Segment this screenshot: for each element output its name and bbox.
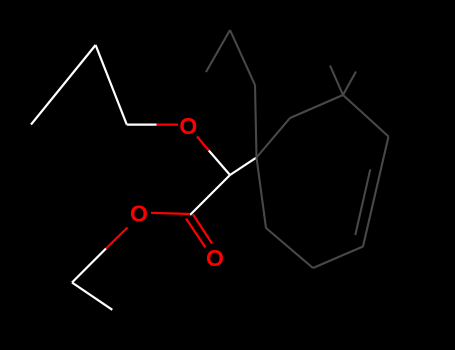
wire propyl chain left arm xyxy=(31,45,96,125)
ring methyl stub B xyxy=(343,72,356,96)
wire ester O to carbonyl C xyxy=(151,213,190,214)
wire central C to carbonyl C xyxy=(190,175,230,215)
wire ester O to CH2 white half xyxy=(72,249,106,283)
bridge leg V1 up xyxy=(255,85,257,158)
svg-text:O: O xyxy=(206,245,224,271)
wire O to central C red half xyxy=(197,137,209,151)
ring edge V1-V2 xyxy=(257,118,291,158)
wire ethyl CH2 to CH3 xyxy=(72,283,112,310)
ring edge V5-V7 bottom right xyxy=(313,247,363,269)
svg-text:O: O xyxy=(130,201,148,227)
ring methyl stub A xyxy=(330,66,343,96)
carbonyl double bond line 1 xyxy=(193,215,212,244)
wire ester O to CH2 red half xyxy=(106,228,128,249)
wire O to central C white half xyxy=(209,151,230,176)
ring edge V3-V4 xyxy=(343,95,389,137)
bridge upper bond xyxy=(230,30,255,85)
ring edge V6-V1 left side xyxy=(257,158,267,229)
wire propyl chain right arm xyxy=(96,45,127,125)
svg-text:O: O xyxy=(179,113,197,139)
ring edge V7-V6 bottom left xyxy=(266,228,313,268)
ring edge V2-V3 xyxy=(290,95,343,118)
carbonyl double bond line 2 xyxy=(186,219,206,248)
wire C-O bond white half (methoxy) xyxy=(127,123,157,125)
wire C-O bond red half (methoxy) xyxy=(157,123,179,125)
bridge methyl xyxy=(206,30,230,72)
ring edge V4-V5 right side xyxy=(363,137,389,247)
wire central C to ring attach V1 xyxy=(230,158,257,176)
ring inner double bond line xyxy=(355,169,370,235)
